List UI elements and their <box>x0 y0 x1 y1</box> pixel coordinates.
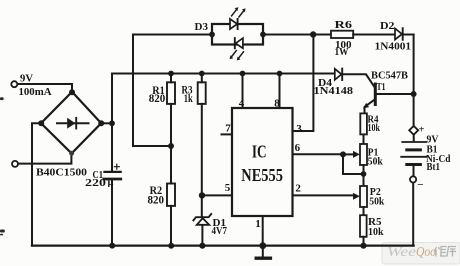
wire: R3 down to D1 <box>201 104 203 216</box>
wire: D2 to battery + rail <box>404 34 414 36</box>
potentiometer P1 50k body <box>360 144 367 165</box>
svg-text:Wee: Wee <box>387 245 416 260</box>
wire: R5 to ground rail <box>363 237 365 246</box>
svg-text:D3: D3 <box>195 21 209 33</box>
svg-text:1k: 1k <box>184 91 193 105</box>
P2 wiper arrow <box>353 193 360 200</box>
wire: D1 to ground rail <box>201 225 203 246</box>
svg-text:1N4148: 1N4148 <box>314 86 354 97</box>
wire: bridge left node to ground rail <box>32 123 41 245</box>
wire: pin 4 to Vcc rail <box>242 74 244 109</box>
svg-text:IC: IC <box>252 141 267 161</box>
junction: R1/R2/D3-return <box>168 143 174 149</box>
svg-text:1: 1 <box>255 218 261 230</box>
wire: P2 to R5 <box>363 207 365 215</box>
svg-text:8: 8 <box>274 98 280 110</box>
zener diode D1 4V7 <box>193 214 211 220</box>
svg-text:B40C1500: B40C1500 <box>36 167 87 178</box>
diode D2 1N4001 <box>395 28 402 39</box>
wire: pin 1 to ground rail <box>262 216 264 246</box>
transistor T1 emitter with arrow <box>365 100 375 114</box>
wire: D3 right node to R6 <box>263 34 331 36</box>
wire: R1 to R1/R2 node <box>170 104 172 146</box>
svg-text:7: 7 <box>225 123 231 135</box>
junction: pin1 / ground symbol <box>259 242 266 249</box>
wire: C1 to ground rail <box>111 181 113 246</box>
bridge internal diode <box>57 122 89 124</box>
svg-text:10k: 10k <box>368 122 381 134</box>
junction: Vcc/pin8 <box>277 71 283 77</box>
battery B1 plate 1 (long) <box>402 141 426 143</box>
node: bridge top <box>69 89 75 95</box>
wire: J1 to bridge top node <box>18 84 72 92</box>
wire: right vertical rail (D2 to collector node to battery) <box>413 35 415 126</box>
ground symbol <box>262 246 264 257</box>
scan artifact marks on left edge <box>0 97 5 235</box>
terminal J2: input return (bottom left) <box>12 161 18 167</box>
svg-text:1N4001: 1N4001 <box>375 42 412 53</box>
wire: pin3 riser (crosses Vcc rail) <box>293 35 314 132</box>
wire: Vcc rail riser and top distribution rail to D4 <box>112 74 335 171</box>
svg-text:NE555: NE555 <box>241 165 283 185</box>
wire: node to R2 <box>170 146 172 184</box>
svg-text:2: 2 <box>295 183 301 195</box>
svg-text:820: 820 <box>148 193 165 207</box>
resistor R3 1k <box>198 82 206 104</box>
svg-text:µ: µ <box>108 177 115 187</box>
wire: pin6 to P1 wiper <box>293 153 344 155</box>
wire: pin 5 to R3/D1 <box>202 194 232 196</box>
wire: Vcc rail to R3 <box>201 74 203 83</box>
junction: bridge+ / C1 / Vcc rail <box>109 120 115 126</box>
resistor R5 10k <box>360 215 367 237</box>
LED pair D3 frame <box>212 24 263 45</box>
node: D3 right <box>260 32 266 38</box>
capacitor C1 220u plates <box>105 171 121 173</box>
battery terminal diamond (+) <box>409 126 418 135</box>
junction: D1 at ground rail <box>199 243 205 249</box>
svg-text:BC547B: BC547B <box>371 70 409 82</box>
svg-text:4V7: 4V7 <box>212 226 228 237</box>
potentiometer P2 50k body <box>360 186 367 207</box>
wire: battery negative to ground rail <box>412 183 414 246</box>
bridge rectifier B40C1500 diamond <box>41 92 101 154</box>
svg-text:5: 5 <box>225 182 231 194</box>
junction: collector / battery + <box>411 91 417 97</box>
wire: R6 to D2 <box>353 34 395 36</box>
svg-text:+: + <box>419 124 425 135</box>
capacitor C1 polarity plus <box>114 164 119 169</box>
junction: R2 at ground rail <box>168 243 174 249</box>
LED D3 bottom emission arrows <box>232 51 244 58</box>
resistor R6 100 1W <box>331 31 353 38</box>
node: bridge right <box>98 120 104 126</box>
junction: pin6 / wiper / P1 bottom tie <box>340 151 346 157</box>
watermark CJK glyph 库 <box>447 247 456 257</box>
wire: top rail from branch to D3 left node <box>133 34 212 36</box>
svg-text:820: 820 <box>149 91 166 105</box>
diode D4 1N4148 <box>335 69 342 80</box>
battery B1 plate 3 (long) <box>401 156 426 158</box>
transistor T1 BC547B base bar <box>374 84 377 105</box>
IC U1 NE555 body <box>232 108 293 216</box>
svg-text:220: 220 <box>85 178 106 189</box>
junction: pin3 branch on top rail <box>310 31 316 37</box>
wire: pin 8 to Vcc rail <box>279 74 281 109</box>
junction: C1 at ground rail <box>109 243 115 249</box>
svg-text:50k: 50k <box>368 156 384 168</box>
svg-text:9V: 9V <box>20 72 33 84</box>
wire: R4 to P1 <box>363 134 365 144</box>
wire: Vcc rail to R1 <box>170 74 172 83</box>
junction: Vcc/R1 <box>168 71 174 77</box>
wire: wiper tie-down loop to P1 lower end <box>343 154 364 174</box>
battery minus terminal circle <box>410 176 416 182</box>
wire: J2 to bridge bottom node <box>18 153 71 163</box>
svg-text:3: 3 <box>296 123 302 135</box>
junction: R5 at ground rail <box>360 243 366 249</box>
watermark WeeQoo box <box>382 243 460 265</box>
svg-text:−: − <box>417 179 423 191</box>
svg-text:1W: 1W <box>335 47 349 58</box>
svg-text:Bt1: Bt1 <box>427 162 441 173</box>
svg-text:R6: R6 <box>335 19 353 31</box>
wire: pin 7 stub <box>222 133 233 135</box>
battery B1 plate 4 (short thick) <box>407 163 421 166</box>
resistor R4 10k <box>360 113 367 134</box>
P1 wiper arrow <box>343 153 353 155</box>
LED D3 bottom (points left) <box>236 38 243 48</box>
junction: P1 low end / P2 top <box>361 171 367 177</box>
wire: R2 to ground rail <box>170 206 172 246</box>
junction: Vcc/pin4 <box>240 71 246 77</box>
ground rail (bottom) <box>32 244 414 246</box>
wire: D4 cathode to T1 base <box>343 74 375 88</box>
wire: battery bottom plate to minus terminal circle <box>413 166 415 176</box>
svg-text:10k: 10k <box>368 226 384 238</box>
node: D3 left <box>209 32 215 38</box>
wire: D3 return branch (top rail down to R1/R2 node) <box>133 35 171 147</box>
wire: P1 to P2 <box>363 165 365 186</box>
watermark CJK glyph 维 <box>434 247 447 257</box>
resistor R2 820 <box>167 184 175 206</box>
svg-text:50k: 50k <box>369 195 385 207</box>
wire: diamond to battery top plate <box>413 135 415 141</box>
junction: R3-D1 / pin5 <box>199 192 205 198</box>
svg-text:D2: D2 <box>380 20 395 32</box>
svg-text:4: 4 <box>239 98 245 110</box>
wire: pin2 to P2 wiper <box>293 194 354 196</box>
node: bridge bottom <box>69 151 74 156</box>
battery B1 plate 2 (short thick) <box>407 148 421 151</box>
LED D3 top (points right) <box>230 19 237 29</box>
svg-text:Qoo: Qoo <box>416 245 436 260</box>
node: bridge left <box>38 120 44 126</box>
resistor R1 820 <box>167 82 175 104</box>
LED D3 top emission arrows <box>232 10 244 17</box>
transistor T1 collector wire <box>377 93 414 95</box>
svg-text:100mA: 100mA <box>19 86 52 98</box>
terminal J1: 9V 100mA input (top left) <box>11 81 17 87</box>
svg-text:6: 6 <box>295 142 301 154</box>
wire: bridge right node to junction <box>101 122 112 124</box>
junction: Vcc/R3 <box>199 71 205 77</box>
svg-text:T1: T1 <box>377 81 386 93</box>
